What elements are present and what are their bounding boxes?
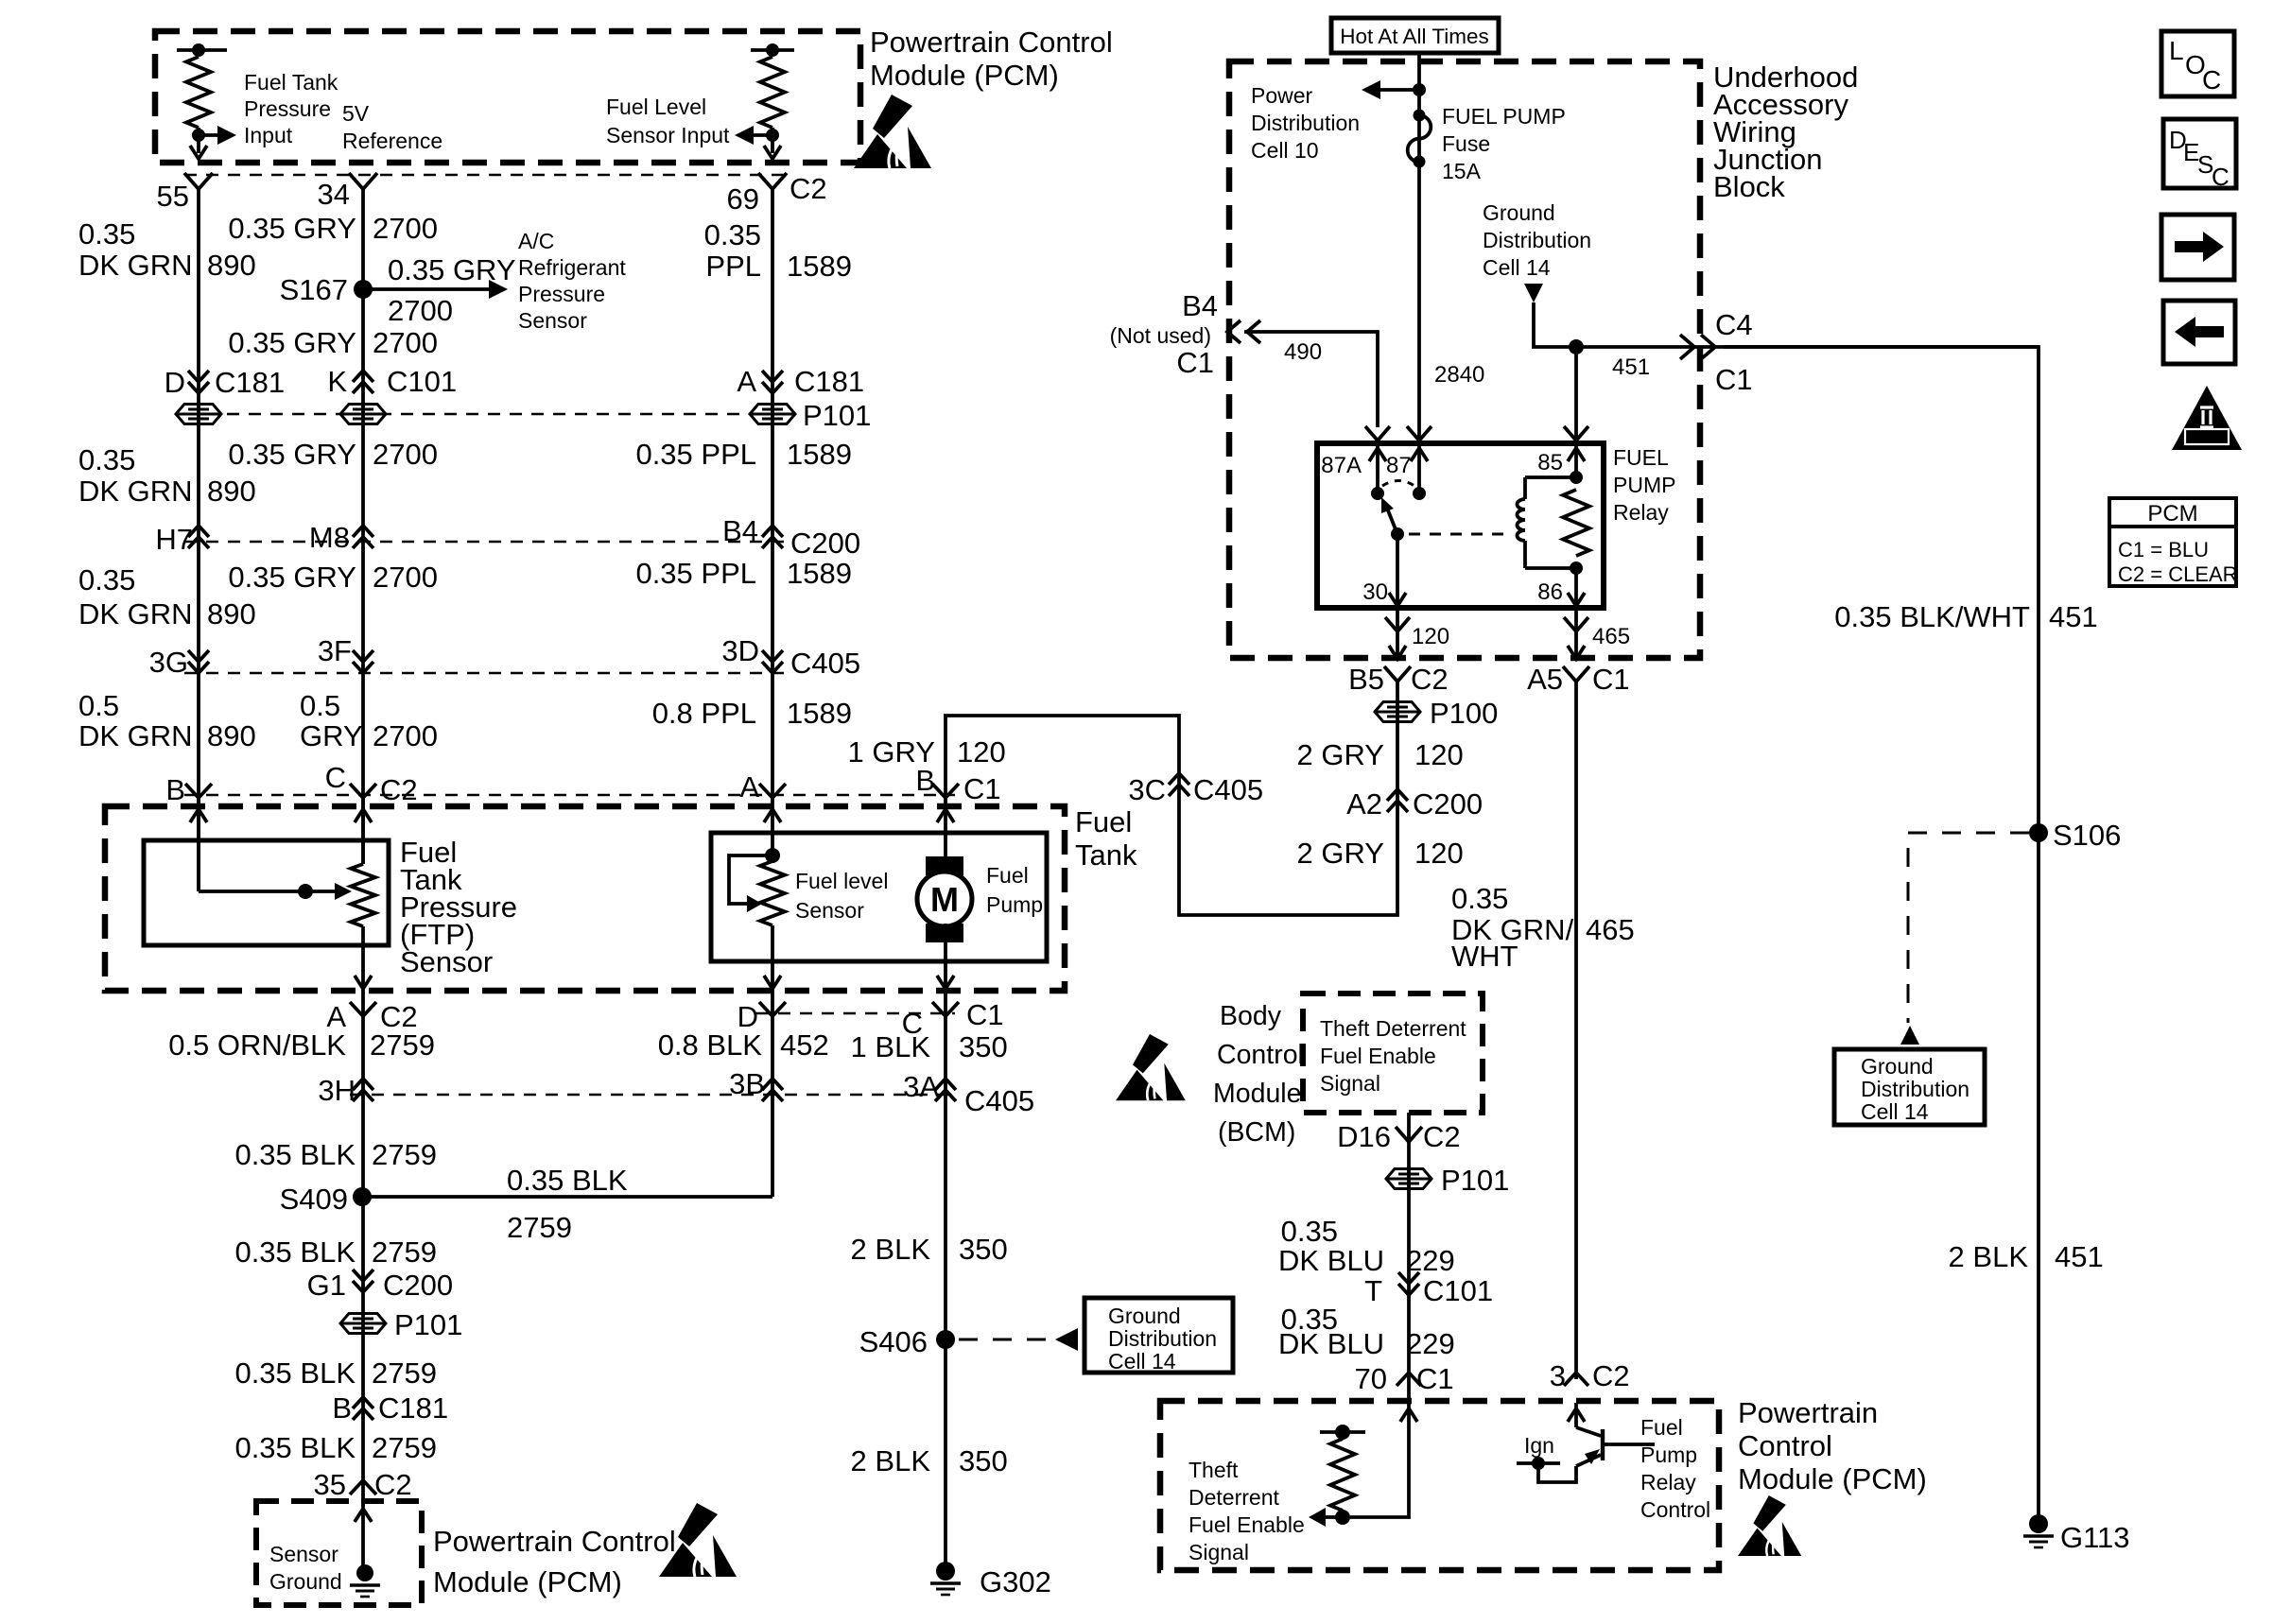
svg-text:1589: 1589 — [787, 697, 852, 730]
svg-text:2759: 2759 — [372, 1138, 437, 1171]
svg-text:Power: Power — [1251, 83, 1313, 108]
pin A5 C1 fork — [1563, 666, 1589, 682]
arrow up into tank col2 — [361, 798, 365, 864]
arrow down FTP input — [190, 146, 207, 159]
pin 34 fork — [349, 173, 377, 189]
pin C C1 fork (col4) — [932, 1002, 959, 1016]
splice S167 — [354, 280, 373, 299]
svg-text:87: 87 — [1386, 453, 1412, 478]
svg-text:(BCM): (BCM) — [1218, 1117, 1295, 1148]
svg-text:D: D — [165, 366, 185, 399]
svg-text:0.5 ORN/BLK: 0.5 ORN/BLK — [168, 1028, 346, 1062]
connector line C200 — [184, 541, 785, 544]
svg-text:Module: Module — [1213, 1079, 1301, 1109]
svg-text:0.8 BLK: 0.8 BLK — [658, 1028, 763, 1062]
svg-text:G113: G113 — [2060, 1521, 2130, 1554]
connector 3H (col2) — [353, 1079, 373, 1101]
connector M8 (col2) — [353, 526, 373, 548]
svg-text:0.35: 0.35 — [78, 443, 135, 476]
wire 451 to S106 — [1724, 347, 2039, 1519]
svg-text:0.35: 0.35 — [78, 217, 135, 251]
wire 465 to relay pin 85 — [1574, 347, 1578, 443]
svg-text:Sensor: Sensor — [795, 898, 864, 923]
wire DK GRN 890 (col 1) — [197, 189, 200, 891]
connector D C181 (col1) — [188, 371, 209, 393]
fork below relay pin 30 — [1396, 608, 1399, 658]
svg-text:A2: A2 — [1346, 787, 1382, 821]
svg-text:Deterrent: Deterrent — [1189, 1485, 1279, 1510]
svg-text:A: A — [739, 770, 759, 803]
connector H7 (col1) — [188, 526, 209, 548]
Hot At All Times box — [1331, 18, 1499, 53]
relay pin 87A terminal — [1376, 445, 1379, 493]
svg-text:1589: 1589 — [787, 438, 852, 471]
svg-text:Pump: Pump — [1640, 1443, 1697, 1467]
arrow down out of tank col3 — [764, 976, 781, 989]
svg-text:0.35 GRY: 0.35 GRY — [388, 253, 516, 286]
wire S409 to fuel level ground — [362, 1195, 772, 1199]
svg-text:PUMP: PUMP — [1613, 473, 1675, 497]
svg-text:L: L — [2169, 36, 2184, 65]
svg-text:350: 350 — [959, 1030, 1008, 1063]
svg-text:0.35 BLK: 0.35 BLK — [507, 1164, 628, 1197]
svg-text:85: 85 — [1537, 450, 1563, 475]
svg-text:3G: 3G — [149, 646, 188, 679]
node hot feed junction — [1413, 83, 1426, 96]
svg-text:2700: 2700 — [373, 438, 438, 471]
relay pin 30 wire — [1396, 534, 1399, 606]
svg-text:DK GRN: DK GRN — [78, 719, 193, 752]
wire 465 relay to PCM — [1574, 682, 1578, 1379]
connector 3A C405 (col4) — [935, 1079, 956, 1101]
svg-text:35: 35 — [314, 1468, 346, 1501]
svg-text:C1: C1 — [963, 772, 1001, 805]
wire GRY 2700 (col 2) — [361, 189, 365, 864]
icon left arrow box — [2163, 301, 2235, 364]
svg-text:0.35: 0.35 — [704, 218, 761, 251]
relay switch lever — [1386, 506, 1397, 534]
arrow down out of tank col4 — [937, 976, 954, 989]
relay coil — [1525, 475, 1576, 479]
fork relay pin 87A — [1365, 426, 1390, 441]
svg-text:T: T — [1364, 1274, 1382, 1307]
wire branch to A/C refrigerant pressure sensor — [363, 287, 491, 291]
svg-text:Fuel Enable: Fuel Enable — [1320, 1044, 1436, 1068]
svg-text:86: 86 — [1537, 579, 1563, 605]
arrow up sensor ground — [355, 1509, 372, 1522]
pin A C2 fork (col2) — [350, 1002, 376, 1016]
svg-text:490: 490 — [1284, 339, 1322, 365]
svg-text:Module (PCM): Module (PCM) — [433, 1565, 622, 1598]
arrow up into tank col1 — [197, 798, 200, 832]
svg-text:2759: 2759 — [372, 1431, 437, 1464]
wire col3 below tank — [771, 1016, 774, 1197]
dashed reference S106 to ground distribution — [1908, 833, 2029, 1023]
resistor relay coil parallel — [1563, 490, 1589, 556]
connector pass-through line P101 — [227, 413, 747, 416]
ESD symbol bottom PCM — [659, 1503, 737, 1577]
svg-text:350: 350 — [959, 1233, 1008, 1266]
svg-text:2 BLK: 2 BLK — [851, 1444, 931, 1477]
connector line C2 top — [184, 174, 792, 177]
ESD symbol bottom right PCM — [1738, 1495, 1801, 1556]
fuel pump module box — [711, 833, 1047, 961]
svg-text:Control: Control — [1738, 1429, 1832, 1462]
ESD symbol top PCM — [854, 95, 931, 168]
svg-text:3D: 3D — [721, 634, 759, 667]
svg-text:Ground: Ground — [269, 1569, 342, 1594]
svg-text:0.8 PPL: 0.8 PPL — [652, 697, 756, 730]
svg-text:Control: Control — [1217, 1040, 1304, 1070]
svg-text:B4: B4 — [1182, 289, 1218, 322]
resistor theft deterrent — [1320, 1430, 1365, 1434]
svg-text:Cell 14: Cell 14 — [1483, 255, 1551, 280]
splice S406 — [936, 1330, 955, 1349]
svg-text:Fuel Enable: Fuel Enable — [1189, 1512, 1305, 1537]
svg-text:C2: C2 — [380, 773, 418, 806]
icon LOC box — [2161, 31, 2234, 96]
splice S106 — [2029, 823, 2048, 842]
resistor FTP sensor — [351, 864, 375, 926]
arrow up theft deterrent into PCM — [1400, 1408, 1417, 1422]
FTP sensor box — [144, 840, 389, 945]
svg-text:C200: C200 — [1413, 787, 1483, 821]
svg-text:Fuel Tank: Fuel Tank — [244, 70, 338, 95]
ground sensor ground symbol — [350, 1564, 380, 1597]
svg-text:Theft Deterrent: Theft Deterrent — [1320, 1016, 1466, 1041]
svg-text:Cell 10: Cell 10 — [1251, 138, 1319, 163]
svg-text:Pressure: Pressure — [244, 96, 331, 121]
wire theft deterrent signal — [1407, 1113, 1411, 1403]
svg-text:Pump: Pump — [986, 892, 1043, 917]
svg-text:Powertrain Control: Powertrain Control — [433, 1525, 676, 1558]
arrow down out of tank col2 — [355, 976, 372, 989]
arrow FTP wiper — [335, 883, 352, 900]
svg-text:0.35 BLK: 0.35 BLK — [234, 1431, 356, 1464]
svg-text:Ground: Ground — [1108, 1304, 1181, 1328]
connector A2 C200 — [1387, 789, 1408, 812]
svg-text:DK BLU: DK BLU — [1278, 1327, 1384, 1360]
connector line C405 lower — [350, 1094, 955, 1097]
svg-text:Fuel: Fuel — [986, 863, 1029, 888]
Underhood Accessory Wiring Junction Block box — [1229, 61, 1700, 658]
splice S409 — [353, 1187, 372, 1206]
wire FTP wiper — [197, 832, 200, 891]
svg-text:2 GRY: 2 GRY — [1297, 738, 1384, 771]
svg-text:A5: A5 — [1527, 663, 1563, 696]
svg-text:B5: B5 — [1348, 663, 1384, 696]
svg-text:Powertrain Control: Powertrain Control — [870, 26, 1113, 59]
connector line C405 — [184, 672, 785, 675]
connector 3 C2 — [1564, 1373, 1588, 1386]
svg-text:3A: 3A — [903, 1070, 939, 1103]
wire PPL 1589 (col 3) — [771, 189, 774, 797]
relay pin 86 node — [1570, 561, 1583, 575]
arrow up into tank col3 — [771, 798, 774, 855]
svg-text:2 GRY: 2 GRY — [1297, 837, 1384, 870]
svg-text:0.35: 0.35 — [78, 563, 135, 596]
dashed reference S406 to ground distribution — [959, 1339, 1050, 1341]
PCM legend box — [2109, 498, 2236, 586]
pin B fork (col1) — [185, 784, 212, 798]
svg-text:120: 120 — [1414, 738, 1464, 771]
svg-text:Sensor: Sensor — [400, 945, 493, 978]
arrow fuel level wiper — [747, 895, 762, 912]
svg-text:Block: Block — [1713, 170, 1785, 203]
connector lens P101 (col2) — [340, 1314, 386, 1334]
svg-text:C2: C2 — [1592, 1359, 1630, 1392]
connector B C181 (col2) — [353, 1397, 373, 1420]
svg-text:M: M — [930, 880, 959, 919]
ground G302 — [930, 1562, 961, 1595]
svg-text:C: C — [325, 761, 346, 794]
svg-text:Distribution: Distribution — [1108, 1326, 1217, 1351]
pin A fork (col3) — [759, 784, 786, 798]
connector 70 C1 — [1397, 1373, 1421, 1386]
svg-text:Sensor: Sensor — [269, 1542, 338, 1566]
Ground Distribution Cell 14 box (left) — [1084, 1298, 1233, 1373]
svg-text:S167: S167 — [280, 273, 348, 306]
svg-text:2840: 2840 — [1434, 362, 1484, 388]
svg-text:PPL: PPL — [705, 250, 761, 283]
svg-text:1589: 1589 — [787, 250, 852, 283]
svg-text:3B: 3B — [729, 1067, 765, 1100]
chevron C4 crossing — [1680, 335, 1694, 359]
svg-text:DK BLU: DK BLU — [1278, 1244, 1384, 1277]
svg-text:1 GRY: 1 GRY — [848, 735, 935, 769]
relay contact arc — [1382, 481, 1414, 487]
svg-text:C2: C2 — [374, 1468, 412, 1501]
svg-text:G1: G1 — [307, 1269, 346, 1302]
fuel pump motor M — [926, 856, 963, 875]
fuel tank box — [105, 806, 1065, 991]
wire col2 below tank — [361, 1016, 365, 1577]
svg-text:30: 30 — [1362, 579, 1388, 605]
svg-text:Refrigerant: Refrigerant — [518, 255, 626, 280]
node FTP wiper dot — [298, 884, 313, 899]
svg-text:0.35: 0.35 — [1451, 882, 1508, 915]
arrow from ground distribution — [1524, 284, 1543, 302]
svg-text:Hot At All Times: Hot At All Times — [1340, 25, 1489, 48]
svg-text:15A: 15A — [1442, 159, 1482, 183]
svg-text:Input: Input — [244, 123, 293, 147]
icon right arrow box — [2161, 215, 2234, 280]
arrow theft deterrent signal — [1320, 1515, 1343, 1519]
pin 69 fork — [758, 173, 787, 189]
svg-text:C405: C405 — [964, 1084, 1034, 1117]
svg-text:C: C — [2212, 163, 2230, 191]
svg-text:0.35 PPL: 0.35 PPL — [635, 557, 756, 590]
node Ign junction — [1517, 1461, 1560, 1465]
svg-text:Fuel: Fuel — [1640, 1415, 1683, 1440]
svg-text:0.35 GRY: 0.35 GRY — [228, 212, 356, 245]
svg-text:Body: Body — [1220, 1001, 1282, 1031]
PCM module box (top left) — [155, 31, 860, 163]
svg-text:Relay: Relay — [1640, 1470, 1696, 1494]
arrow down fuel level input — [764, 146, 781, 159]
relay mechanical link dashed — [1409, 533, 1513, 536]
svg-text:Module (PCM): Module (PCM) — [1738, 1462, 1927, 1495]
icon OBD II triangle — [2172, 386, 2242, 450]
svg-text:Signal: Signal — [1189, 1540, 1249, 1564]
svg-text:Distribution: Distribution — [1251, 111, 1360, 135]
svg-text:(Not used): (Not used) — [1110, 323, 1211, 348]
svg-text:0.5: 0.5 — [300, 689, 340, 722]
connector line C1 fuel pump — [756, 1012, 955, 1015]
svg-text:2 BLK: 2 BLK — [1949, 1240, 2029, 1273]
svg-text:2759: 2759 — [372, 1356, 437, 1390]
svg-text:Distribution: Distribution — [1483, 228, 1591, 252]
svg-text:C200: C200 — [790, 527, 860, 560]
svg-text:C1: C1 — [1416, 1362, 1454, 1395]
connector 3G (col1) — [188, 650, 209, 673]
svg-text:C4: C4 — [1715, 308, 1753, 341]
svg-text:PCM: PCM — [2147, 501, 2197, 527]
svg-text:3H: 3H — [318, 1074, 356, 1107]
connector 3F (col2) — [353, 650, 373, 673]
svg-text:2759: 2759 — [372, 1235, 437, 1269]
connector lens col1 — [176, 405, 221, 424]
svg-text:3C: 3C — [1128, 773, 1166, 806]
svg-text:C2 = CLEAR: C2 = CLEAR — [2118, 562, 2238, 586]
arrow to Power Distribution — [1379, 88, 1419, 92]
svg-text:Ground: Ground — [1483, 200, 1555, 225]
svg-text:120: 120 — [1414, 837, 1464, 870]
svg-text:Ign: Ign — [1524, 1433, 1554, 1458]
svg-text:Sensor Input: Sensor Input — [606, 123, 730, 147]
svg-text:Ground: Ground — [1861, 1054, 1934, 1079]
pin 35 C2 fork — [350, 1480, 376, 1494]
wire fuel level wiper loop — [729, 855, 772, 904]
svg-text:Fuel level: Fuel level — [795, 869, 888, 893]
svg-text:S409: S409 — [280, 1183, 348, 1216]
svg-text:H7: H7 — [155, 523, 193, 556]
svg-text:Cell 14: Cell 14 — [1108, 1349, 1176, 1373]
svg-text:890: 890 — [207, 719, 256, 752]
svg-text:B: B — [165, 773, 185, 806]
arrow up relay control into PCM — [1568, 1408, 1585, 1422]
arrow up into tank col4 — [944, 798, 947, 856]
connector B4 C200 (col3) — [762, 526, 783, 548]
svg-text:OBD II: OBD II — [2188, 430, 2226, 444]
svg-text:0.35 GRY: 0.35 GRY — [228, 326, 356, 359]
connector 3C C405 — [1169, 773, 1189, 796]
svg-text:2759: 2759 — [370, 1028, 435, 1062]
resistor Fuel Level Sensor Input (inside PCM) — [751, 48, 794, 52]
node FTP input junction — [192, 129, 205, 142]
svg-text:Fuel Level: Fuel Level — [606, 95, 706, 119]
svg-text:Cell 14: Cell 14 — [1861, 1099, 1929, 1124]
arrow to Fuel Level Sensor Input label — [752, 133, 772, 137]
connector G1 C200 — [353, 1270, 373, 1292]
fork relay pin 85 — [1564, 426, 1588, 441]
svg-text:A: A — [737, 365, 756, 398]
svg-text:C1: C1 — [966, 998, 1004, 1031]
connector T C101 — [1398, 1272, 1419, 1295]
svg-text:1589: 1589 — [787, 557, 852, 590]
PCM sensor ground box — [256, 1501, 422, 1605]
pin 55 fork — [184, 173, 213, 189]
svg-text:M8: M8 — [309, 521, 350, 554]
ESD symbol BCM — [1116, 1034, 1186, 1100]
resistor Fuel Tank Pressure Input (inside PCM) — [177, 48, 227, 52]
svg-text:0.35 GRY: 0.35 GRY — [228, 561, 356, 594]
svg-text:34: 34 — [318, 178, 350, 211]
svg-text:465: 465 — [1592, 624, 1630, 649]
svg-text:Fuel: Fuel — [1075, 805, 1132, 838]
svg-text:Fuse: Fuse — [1442, 131, 1490, 156]
svg-text:FUEL: FUEL — [1613, 445, 1669, 470]
svg-text:5V: 5V — [342, 101, 370, 126]
svg-text:3F: 3F — [318, 634, 352, 667]
svg-text:DK GRN: DK GRN — [78, 249, 193, 282]
svg-text:A/C: A/C — [518, 229, 554, 253]
svg-text:229: 229 — [1406, 1244, 1455, 1277]
svg-text:Tank: Tank — [1075, 838, 1137, 872]
svg-text:2759: 2759 — [507, 1211, 572, 1244]
fork relay pin 87 — [1407, 426, 1431, 441]
svg-text:C2: C2 — [789, 172, 827, 205]
svg-text:S106: S106 — [2053, 819, 2121, 852]
svg-text:451: 451 — [2055, 1240, 2104, 1273]
relay pin 87 terminal — [1417, 445, 1421, 493]
svg-text:C101: C101 — [387, 365, 457, 398]
svg-text:Pressure: Pressure — [518, 282, 605, 306]
Ground Distribution Cell 14 box (right) — [1834, 1049, 1985, 1125]
svg-text:Signal: Signal — [1320, 1071, 1380, 1096]
svg-text:350: 350 — [959, 1444, 1008, 1477]
svg-text:0.35 BLK/WHT: 0.35 BLK/WHT — [1834, 600, 2030, 633]
svg-text:C405: C405 — [1193, 773, 1263, 806]
svg-text:Reference: Reference — [342, 129, 442, 153]
svg-text:2 BLK: 2 BLK — [851, 1233, 931, 1266]
node 451/465 junction — [1569, 339, 1584, 354]
pin B5 C2 fork — [1384, 666, 1411, 682]
connector K C101 (col2) — [353, 371, 373, 393]
svg-text:55: 55 — [157, 180, 189, 213]
icon DESC box — [2163, 119, 2236, 188]
svg-text:B4: B4 — [722, 514, 758, 547]
svg-text:69: 69 — [727, 182, 759, 216]
connector 3B (col3) — [762, 1079, 783, 1101]
svg-text:0.5: 0.5 — [78, 689, 119, 722]
svg-text:DK GRN: DK GRN — [78, 597, 193, 631]
svg-text:87A: 87A — [1321, 453, 1362, 478]
svg-text:890: 890 — [207, 249, 256, 282]
svg-text:GRY: GRY — [300, 719, 363, 752]
relay pin 85 terminal — [1574, 445, 1578, 477]
pin C C2 fork (col2) — [350, 784, 376, 798]
svg-text:D16: D16 — [1337, 1120, 1391, 1153]
svg-text:0.35 BLK: 0.35 BLK — [234, 1356, 356, 1390]
svg-text:2700: 2700 — [373, 719, 438, 752]
svg-text:C200: C200 — [383, 1269, 453, 1302]
svg-text:0.35 PPL: 0.35 PPL — [635, 438, 756, 471]
svg-text:C2: C2 — [1423, 1120, 1461, 1153]
svg-text:Theft: Theft — [1189, 1458, 1239, 1482]
connector lens col2 — [340, 405, 386, 424]
svg-text:C181: C181 — [215, 366, 285, 399]
svg-text:229: 229 — [1406, 1327, 1455, 1360]
wire 490 — [1244, 332, 1378, 427]
svg-text:Relay: Relay — [1613, 500, 1669, 525]
svg-text:0.35 GRY: 0.35 GRY — [228, 438, 356, 471]
svg-text:C2: C2 — [1411, 663, 1449, 696]
pin D fork (col3) — [759, 1002, 786, 1016]
svg-text:2700: 2700 — [373, 326, 438, 359]
svg-text:C181: C181 — [378, 1391, 448, 1425]
svg-text:2700: 2700 — [373, 212, 438, 245]
